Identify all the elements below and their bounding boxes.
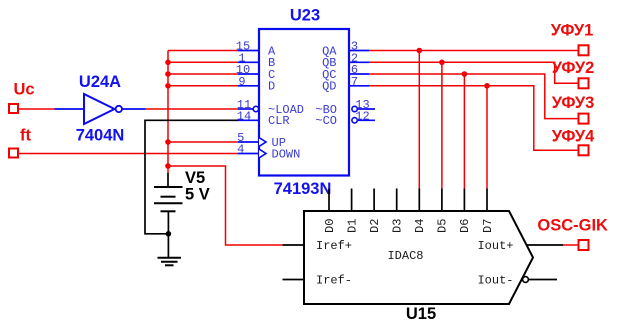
svg-text:DOWN: DOWN: [272, 147, 301, 161]
wire ft to U23 DOWN: [19, 153, 239, 155]
svg-text:D7: D7: [481, 219, 495, 233]
U23 pin 6 QC stub: [349, 73, 369, 75]
U23 pin 13 ~BO stub with bubble: [352, 106, 357, 111]
junction rail-D: [165, 83, 171, 89]
svg-text:7: 7: [351, 75, 358, 89]
wire QD drop to D7: [486, 86, 488, 189]
wire CLR to ground node: [145, 120, 238, 234]
svg-text:5 V: 5 V: [185, 186, 210, 204]
junction QA-D4: [417, 48, 423, 54]
U15 pin D6 stub: [463, 189, 465, 212]
wire QB drop to D5: [441, 62, 443, 188]
svg-text:D4: D4: [413, 219, 427, 233]
svg-text:QD: QD: [322, 80, 336, 94]
svg-text:ft: ft: [20, 126, 31, 144]
junction rail-battery: [165, 163, 171, 169]
U23 pin 5 UP stub with clock wedge: [238, 141, 259, 143]
op-amp U24A inverter 7404N: [55, 94, 146, 124]
svg-text:УФУ2: УФУ2: [552, 59, 595, 77]
svg-text:D: D: [268, 80, 275, 94]
U23 pin 15 A stub: [238, 50, 259, 52]
U15 pin D0 stub: [328, 189, 330, 212]
U23 pin 14 CLR stub: [238, 119, 259, 121]
U23 pin 11 ~LOAD stub with bubble: [238, 108, 253, 110]
wire QA drop to D4: [418, 51, 420, 189]
svg-text:U23: U23: [290, 7, 320, 25]
svg-text:УФУ3: УФУ3: [552, 94, 595, 112]
wire rail to Iref+ branch: [168, 166, 283, 245]
wire QB to UFU2: [369, 62, 579, 83]
junction QD-D7: [484, 83, 490, 89]
svg-text:УФУ1: УФУ1: [551, 22, 594, 40]
svg-text:D3: D3: [391, 219, 405, 233]
junction rail-UP: [165, 139, 171, 145]
wire +5V rail vertical: [167, 51, 169, 174]
U23 pin 2 QB stub: [349, 61, 369, 63]
terminal UFU3: [579, 114, 589, 124]
U15 pin D4 stub: [418, 189, 420, 212]
svg-text:Iref+: Iref+: [316, 239, 352, 253]
wire QC drop to D6: [463, 74, 465, 189]
terminal ft: [9, 149, 18, 158]
wire rail to pin UP: [168, 141, 238, 143]
ground: [158, 234, 182, 265]
svg-text:CLR: CLR: [268, 114, 290, 128]
wire QA to UFU1: [369, 50, 579, 52]
junction rail-C: [165, 71, 171, 77]
svg-text:Iout-: Iout-: [477, 273, 513, 287]
wire rail to pin C: [168, 73, 238, 75]
junction battery-ground: [166, 231, 172, 237]
svg-text:V5: V5: [185, 169, 205, 187]
svg-text:D2: D2: [368, 219, 382, 233]
U23 pin 9 D stub: [238, 85, 259, 87]
U23 pin 4 DOWN stub with clock wedge: [238, 153, 259, 155]
svg-text:D5: D5: [436, 219, 450, 233]
svg-text:~CO: ~CO: [315, 114, 337, 128]
U15 pin Iref+ stub: [283, 244, 305, 246]
svg-text:74193N: 74193N: [274, 180, 332, 198]
svg-text:IDAC8: IDAC8: [387, 249, 423, 263]
svg-text:УФУ4: УФУ4: [552, 127, 595, 145]
wire Uc to U24A input: [19, 108, 55, 110]
svg-text:Iout+: Iout+: [477, 239, 513, 253]
U23 pin 3 QA stub: [349, 50, 369, 52]
U15 pin D1 stub: [351, 189, 353, 212]
wire QD to UFU4: [369, 86, 579, 151]
svg-text:U15: U15: [406, 305, 436, 323]
svg-text:Iref-: Iref-: [316, 273, 352, 287]
wire rail to pin B: [168, 61, 238, 63]
U23 pin 7 QD stub: [349, 85, 369, 87]
counter U23 74193N: [238, 29, 375, 176]
terminal Uc: [9, 104, 18, 113]
wire U24A output to U23 ~LOAD: [146, 108, 239, 110]
svg-text:U24A: U24A: [79, 73, 121, 91]
terminal UFU4: [579, 145, 589, 155]
U23 pin 12 ~CO stub with bubble: [352, 118, 357, 123]
svg-text:D6: D6: [458, 219, 472, 233]
U15 pin Iout+ stub: [527, 244, 563, 246]
svg-text:14: 14: [237, 110, 251, 124]
U15 pin Iref- stub: [283, 279, 305, 281]
svg-text:4: 4: [237, 143, 244, 157]
svg-text:OSC-GIK: OSC-GIK: [537, 216, 608, 234]
U23 pin 10 C stub: [238, 73, 259, 75]
U23 pin 1 B stub: [238, 61, 259, 63]
U15 pin D7 stub: [486, 189, 488, 212]
svg-text:12: 12: [355, 110, 369, 124]
wire Iout+ to OSC-GIK: [563, 244, 579, 246]
wire QC to UFU3: [369, 74, 579, 119]
junction QC-D6: [462, 71, 468, 77]
U15 pin D3 stub: [396, 189, 398, 212]
terminal OSC-GIK: [579, 240, 589, 250]
wire rail to pin D: [168, 85, 238, 87]
wire rail to pin A: [168, 50, 238, 52]
DAC U15 IDAC8: [283, 189, 564, 305]
svg-text:Uc: Uc: [13, 81, 34, 99]
junction QB-D5: [439, 60, 445, 66]
battery V5: [154, 173, 183, 234]
junction rail-B: [165, 60, 171, 66]
svg-text:7404N: 7404N: [76, 126, 125, 144]
U15 pin D2 stub: [373, 189, 375, 212]
svg-text:9: 9: [238, 75, 245, 89]
terminal UFU2: [579, 78, 589, 88]
svg-text:D0: D0: [323, 219, 337, 233]
U15 pin D5 stub: [441, 189, 443, 212]
terminal UFU1: [579, 45, 589, 55]
svg-text:D1: D1: [345, 219, 359, 233]
U15 pin Iout- stub with bubble: [523, 277, 529, 283]
